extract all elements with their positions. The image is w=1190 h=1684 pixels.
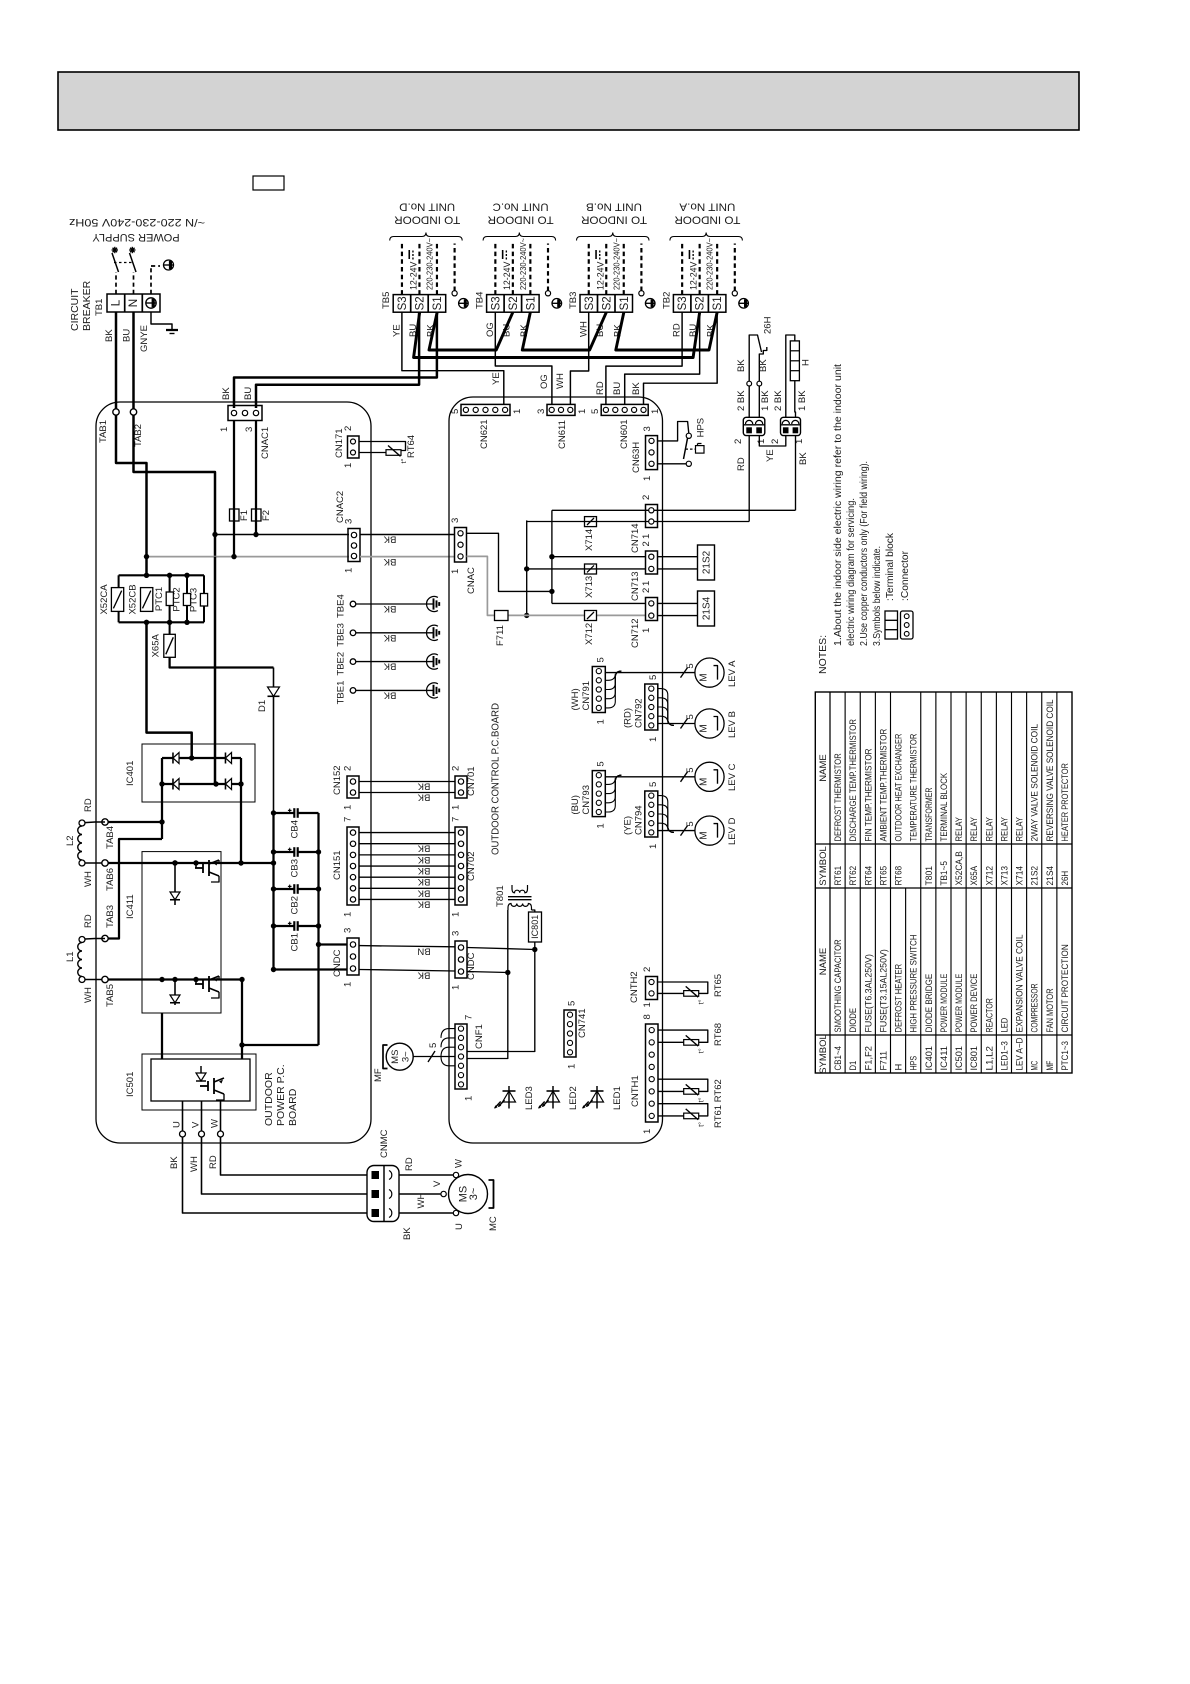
svg-text:TB3: TB3 bbox=[568, 292, 579, 309]
svg-text:RD: RD bbox=[83, 798, 94, 812]
svg-text:S2: S2 bbox=[414, 296, 426, 310]
svg-text:RELAY: RELAY bbox=[969, 817, 979, 842]
svg-text:RD: RD bbox=[736, 457, 747, 471]
dashed field wires TB3 bbox=[588, 244, 590, 295]
LED3 bbox=[508, 1086, 510, 1109]
svg-text:TERMINAL BLOCK: TERMINAL BLOCK bbox=[939, 772, 949, 841]
svg-text:SMOOTHING CAPACITOR: SMOOTHING CAPACITOR bbox=[833, 939, 843, 1032]
svg-text:1: 1 bbox=[219, 427, 230, 432]
svg-text:L1,L2: L1,L2 bbox=[984, 1046, 994, 1071]
svg-text:TRANSFORMER: TRANSFORMER bbox=[924, 787, 934, 841]
bus wire lower bbox=[414, 312, 700, 357]
svg-text:TAB5: TAB5 bbox=[105, 984, 116, 1007]
svg-text:RD: RD bbox=[595, 381, 606, 395]
svg-text:5: 5 bbox=[685, 663, 696, 668]
wire gray CNAC2-1 bbox=[147, 556, 350, 558]
svg-text:1: 1 bbox=[451, 805, 462, 810]
svg-text:3: 3 bbox=[451, 931, 462, 936]
svg-text:WH: WH bbox=[83, 871, 94, 887]
svg-text:TB1~5: TB1~5 bbox=[939, 861, 949, 886]
svg-text:S2: S2 bbox=[601, 296, 613, 310]
protector PTC2 bbox=[186, 575, 188, 593]
expansion valve motor LEV C bbox=[695, 762, 724, 791]
svg-text:1: 1 bbox=[642, 1002, 653, 1007]
svg-text:~/N 220-230-240V 50Hz: ~/N 220-230-240V 50Hz bbox=[69, 216, 205, 228]
earth pin TB4 bbox=[545, 291, 550, 296]
svg-text:220-230-240V~: 220-230-240V~ bbox=[425, 238, 434, 290]
svg-text:LED3: LED3 bbox=[524, 1086, 535, 1110]
thermistor RT62 bbox=[658, 1079, 708, 1091]
connector CN713 bbox=[646, 551, 658, 574]
svg-text:BK: BK bbox=[104, 329, 115, 342]
board-to-board wires CNAC2 to CNAC bbox=[360, 534, 454, 536]
svg-text:X712: X712 bbox=[584, 623, 595, 645]
svg-text:CN63H: CN63H bbox=[631, 442, 642, 473]
svg-text:M: M bbox=[699, 831, 710, 839]
svg-text:3: 3 bbox=[343, 928, 354, 933]
svg-text:TO INDOOR: TO INDOOR bbox=[394, 214, 460, 226]
connector CN712 bbox=[646, 598, 658, 621]
svg-text:F1,F2: F1,F2 bbox=[863, 1046, 873, 1071]
svg-text:UNIT No.D: UNIT No.D bbox=[399, 201, 455, 213]
expansion valve motor LEV A bbox=[695, 658, 724, 687]
svg-text:IC401: IC401 bbox=[924, 1046, 934, 1071]
svg-text:1: 1 bbox=[577, 409, 588, 414]
wire TAB2 down bbox=[134, 415, 216, 557]
outdoor control P.C. board bbox=[449, 397, 663, 1143]
svg-text:12-24V: 12-24V bbox=[689, 262, 699, 290]
svg-text:N: N bbox=[126, 299, 140, 308]
connector CN714 bbox=[646, 505, 658, 528]
svg-text:1: 1 bbox=[450, 569, 461, 574]
svg-text:LEV D: LEV D bbox=[727, 817, 738, 845]
connector CN792 bbox=[645, 684, 658, 730]
svg-text:CN794: CN794 bbox=[633, 805, 644, 835]
outdoor power P.C. board bbox=[96, 402, 371, 1143]
svg-text:LEV A~D: LEV A~D bbox=[1015, 1037, 1025, 1070]
svg-text:t°: t° bbox=[697, 999, 706, 1004]
wire CNAC1-3 through F2 to CNAC2 bbox=[255, 421, 257, 535]
svg-text:TBE1: TBE1 bbox=[336, 681, 347, 705]
svg-text:YE: YE bbox=[391, 324, 402, 337]
svg-text:RT61: RT61 bbox=[833, 866, 843, 886]
svg-text:5: 5 bbox=[648, 782, 659, 787]
svg-text:12-24V: 12-24V bbox=[408, 262, 418, 290]
power module IC411 bbox=[142, 852, 221, 1013]
svg-text:BK: BK bbox=[417, 854, 430, 865]
svg-text:MC: MC bbox=[1030, 1061, 1040, 1071]
svg-text:S1: S1 bbox=[525, 296, 537, 310]
breaker dashed wires bbox=[115, 272, 117, 294]
svg-text:CNMC: CNMC bbox=[379, 1129, 390, 1158]
svg-text:CN152: CN152 bbox=[332, 765, 343, 795]
legend table bbox=[815, 692, 1072, 1073]
wire YE link between plugs bbox=[759, 436, 786, 446]
svg-text:CNTH2: CNTH2 bbox=[629, 971, 640, 1003]
bridge top row bbox=[162, 757, 241, 759]
svg-text:BK: BK bbox=[221, 387, 232, 400]
diode upper in IC411 bbox=[174, 863, 176, 905]
svg-text:BK: BK bbox=[417, 898, 430, 909]
svg-text:TAB1: TAB1 bbox=[98, 420, 109, 443]
connector CN171 bbox=[348, 436, 360, 458]
svg-text:TB5: TB5 bbox=[381, 292, 392, 309]
svg-text:TO INDOOR: TO INDOOR bbox=[674, 214, 740, 226]
svg-text:5: 5 bbox=[685, 768, 696, 773]
connector CN741 bbox=[564, 1010, 576, 1057]
svg-text:W: W bbox=[210, 1119, 221, 1128]
svg-text:TBE2: TBE2 bbox=[336, 652, 347, 676]
svg-text:TO INDOOR: TO INDOOR bbox=[581, 214, 647, 226]
svg-text:RT68: RT68 bbox=[894, 866, 904, 886]
svg-text:220-230-240V~: 220-230-240V~ bbox=[519, 238, 528, 290]
svg-text:X52CA: X52CA bbox=[99, 584, 110, 615]
power device IC501 bbox=[142, 1054, 256, 1110]
wire TAB2 feed to bridge bbox=[214, 557, 216, 784]
svg-text:7: 7 bbox=[343, 817, 354, 822]
connector CNAC2 bbox=[348, 529, 360, 562]
diode lower in IC411 bbox=[174, 980, 176, 1006]
svg-text:OUTDOOR HEAT EXCHANGER: OUTDOOR HEAT EXCHANGER bbox=[894, 733, 904, 841]
connector CN793 bbox=[592, 771, 605, 817]
svg-text:POWER MODULE: POWER MODULE bbox=[954, 974, 964, 1033]
small blank box bbox=[253, 176, 284, 190]
IGBT upper bbox=[195, 867, 203, 869]
connector CN791 bbox=[592, 667, 605, 713]
wire CNAC1-1 through F1 to gray node bbox=[233, 421, 235, 557]
svg-text:2: 2 bbox=[770, 439, 781, 444]
svg-text:BOARD: BOARD bbox=[287, 1088, 299, 1126]
svg-text:5: 5 bbox=[648, 675, 659, 680]
smoothing capacitor CB4 bbox=[274, 812, 295, 814]
wire CB minus rail to CNDC bbox=[274, 968, 348, 970]
svg-text:RT64: RT64 bbox=[406, 435, 417, 458]
thermistor RT68 bbox=[658, 1030, 708, 1042]
svg-text:M: M bbox=[699, 673, 710, 681]
LED1 bbox=[596, 1086, 598, 1109]
svg-text:SYMBOL: SYMBOL bbox=[818, 1034, 829, 1074]
svg-text:OG: OG bbox=[539, 374, 550, 389]
svg-text:T801: T801 bbox=[924, 866, 934, 886]
svg-text:1: 1 bbox=[512, 409, 523, 414]
svg-text:F711: F711 bbox=[878, 1051, 888, 1071]
svg-text:BK: BK bbox=[383, 603, 396, 614]
svg-text:1: 1 bbox=[451, 912, 462, 917]
svg-text:U: U bbox=[172, 1121, 183, 1128]
relay X65A bbox=[169, 622, 171, 634]
svg-text:electric wiring diagram for se: electric wiring diagram for servicing. bbox=[846, 498, 857, 646]
svg-text:OUTDOOR: OUTDOOR bbox=[263, 1072, 275, 1126]
terminal TAB6 bbox=[102, 860, 108, 866]
svg-text:2: 2 bbox=[642, 967, 653, 972]
svg-text:5: 5 bbox=[590, 409, 601, 414]
svg-text:LED: LED bbox=[999, 1018, 1009, 1033]
bridge output right down bbox=[240, 784, 242, 863]
solenoid coil 21S2 bbox=[658, 556, 698, 558]
svg-text:RD: RD bbox=[83, 914, 94, 928]
svg-text:TB4: TB4 bbox=[475, 292, 486, 309]
svg-text:CNDC: CNDC bbox=[466, 952, 477, 980]
svg-text:RELAY: RELAY bbox=[954, 817, 964, 842]
connector CN701 bbox=[455, 776, 467, 798]
svg-text:CB3: CB3 bbox=[290, 859, 301, 877]
wires rails into IC501 bbox=[242, 1045, 319, 1059]
bridge side wires bbox=[161, 758, 163, 784]
wires CN152 to CN701 bbox=[359, 781, 455, 783]
svg-text:1: 1 bbox=[641, 581, 652, 586]
earth pin TB5 bbox=[452, 291, 457, 296]
svg-text:2: 2 bbox=[733, 439, 744, 444]
svg-text:TAB6: TAB6 bbox=[105, 868, 116, 891]
svg-text:L1: L1 bbox=[65, 951, 76, 962]
svg-text:2: 2 bbox=[451, 766, 462, 771]
svg-text:T801: T801 bbox=[495, 885, 506, 907]
svg-text:SYMBOL: SYMBOL bbox=[818, 846, 829, 886]
svg-text:WH: WH bbox=[416, 1193, 427, 1209]
svg-text:3~: 3~ bbox=[401, 1051, 412, 1062]
node junctions on BK wire bbox=[215, 534, 349, 536]
svg-text:S1: S1 bbox=[432, 296, 444, 310]
connector CN151 bbox=[347, 827, 359, 905]
svg-text:1: 1 bbox=[642, 1129, 653, 1134]
svg-text:1: 1 bbox=[343, 463, 354, 468]
svg-text:1: 1 bbox=[595, 823, 606, 828]
svg-text:UNIT No.C: UNIT No.C bbox=[493, 201, 549, 213]
smoothing capacitor rails bbox=[272, 813, 274, 970]
bridge output left to TAB4 node bbox=[161, 784, 163, 839]
svg-text:IC501: IC501 bbox=[954, 1046, 964, 1071]
svg-text:D1: D1 bbox=[848, 1061, 858, 1071]
svg-text:CIRCUIT: CIRCUIT bbox=[69, 288, 81, 331]
svg-text:CN712: CN712 bbox=[630, 618, 641, 648]
svg-text:REACTOR: REACTOR bbox=[984, 998, 994, 1033]
svg-text:220-230-240V~: 220-230-240V~ bbox=[706, 238, 715, 290]
svg-text:L2: L2 bbox=[65, 835, 76, 846]
svg-text:L: L bbox=[109, 299, 123, 306]
breaker poles bbox=[112, 253, 119, 272]
svg-text:1 BK: 1 BK bbox=[797, 390, 808, 411]
svg-text:GNYE: GNYE bbox=[139, 325, 150, 352]
svg-text:PTC1: PTC1 bbox=[154, 587, 165, 611]
svg-text:CN713: CN713 bbox=[630, 571, 641, 601]
connector CNMC bbox=[367, 1166, 399, 1222]
svg-text:BK: BK bbox=[169, 1156, 180, 1169]
IGBT lower bbox=[195, 983, 203, 985]
high pressure switch HPS bbox=[686, 433, 691, 438]
terminal TAB3 and reactor L1 bbox=[102, 935, 108, 941]
wire CN793 to LEV C bbox=[605, 776, 695, 778]
svg-text:F711: F711 bbox=[495, 625, 506, 646]
svg-text:S3: S3 bbox=[677, 296, 689, 310]
svg-text:1 BK: 1 BK bbox=[760, 390, 771, 411]
svg-text:t°: t° bbox=[697, 1097, 706, 1102]
wire L to TAB1 bbox=[115, 312, 117, 409]
svg-text:CN621: CN621 bbox=[479, 419, 490, 449]
connector CNAC1 bbox=[228, 406, 262, 421]
svg-text:2: 2 bbox=[641, 495, 652, 500]
svg-text:BK: BK bbox=[631, 382, 642, 395]
svg-text:X65A: X65A bbox=[151, 634, 162, 658]
svg-text:26H: 26H bbox=[1060, 871, 1070, 886]
svg-text:CN714: CN714 bbox=[630, 523, 641, 553]
svg-text:RT64: RT64 bbox=[863, 866, 873, 886]
solenoid coil 21S4 bbox=[658, 602, 698, 604]
svg-text:DIODE: DIODE bbox=[848, 1008, 858, 1033]
svg-text:CN702: CN702 bbox=[466, 851, 477, 881]
svg-text:S2: S2 bbox=[508, 296, 520, 310]
svg-text:S3: S3 bbox=[397, 296, 409, 310]
svg-text:BU: BU bbox=[612, 382, 623, 395]
svg-text:CB4: CB4 bbox=[290, 820, 301, 838]
svg-text:WH: WH bbox=[83, 987, 94, 1003]
svg-text:YE: YE bbox=[765, 449, 776, 462]
wire YE TB5-S3 to CN621 bbox=[402, 312, 504, 404]
svg-text:X65A: X65A bbox=[969, 865, 979, 885]
svg-text:IC401: IC401 bbox=[125, 761, 136, 786]
wire BU TB2-S2 to CN601 bbox=[625, 312, 700, 404]
relay X714 bbox=[585, 517, 597, 527]
svg-text:CIRCUIT PROTECTION: CIRCUIT PROTECTION bbox=[1060, 944, 1070, 1032]
connector CN702 bbox=[455, 827, 467, 905]
svg-text:t°: t° bbox=[399, 458, 408, 463]
svg-text:2: 2 bbox=[641, 588, 652, 593]
svg-text::Connector: :Connector bbox=[900, 550, 911, 601]
brace TB3 bbox=[577, 233, 650, 241]
svg-text:LEV B: LEV B bbox=[727, 711, 738, 738]
relay X713 bbox=[585, 564, 597, 574]
wires CN151 to CN702 bbox=[359, 832, 455, 834]
svg-text:3: 3 bbox=[244, 427, 255, 432]
svg-text:X712: X712 bbox=[984, 866, 994, 886]
relay X712 bbox=[585, 611, 597, 621]
svg-text:1: 1 bbox=[595, 719, 606, 724]
svg-text:CN793: CN793 bbox=[581, 785, 592, 815]
wires CN63H to HPS bbox=[658, 422, 689, 441]
wire CNDC1 to T801 left leg bbox=[467, 972, 508, 973]
svg-text:NOTES:: NOTES: bbox=[817, 635, 829, 674]
svg-text:8: 8 bbox=[642, 1014, 653, 1019]
connector CN611 bbox=[547, 404, 575, 415]
svg-text:BU: BU bbox=[122, 329, 133, 342]
svg-text:D1: D1 bbox=[257, 700, 268, 712]
svg-text:(RD): (RD) bbox=[622, 708, 633, 728]
svg-text:BK: BK bbox=[383, 534, 396, 545]
svg-text:BK: BK bbox=[383, 556, 396, 567]
terminal TAB1 bbox=[113, 409, 119, 415]
terminal TAB4 and reactor L2 bbox=[102, 819, 108, 825]
svg-text:V: V bbox=[432, 1180, 443, 1187]
svg-text:BK: BK bbox=[417, 792, 430, 803]
svg-text:1.About the indoor side electr: 1.About the indoor side electric wiring … bbox=[833, 364, 844, 646]
svg-text:YE: YE bbox=[491, 372, 502, 385]
thermistor RT65 bbox=[658, 982, 708, 993]
svg-text:RT68: RT68 bbox=[713, 1023, 724, 1046]
svg-text:t°: t° bbox=[697, 1122, 706, 1127]
svg-text:LED1~3: LED1~3 bbox=[999, 1041, 1009, 1070]
terminal TAB5 bbox=[102, 976, 108, 982]
dashed field wires TB4 bbox=[494, 244, 496, 295]
svg-text:WH: WH bbox=[578, 321, 589, 337]
thermistor RT61 bbox=[658, 1104, 708, 1116]
svg-text:RELAY: RELAY bbox=[999, 817, 1009, 842]
svg-text:TBE3: TBE3 bbox=[336, 623, 347, 647]
svg-text:MF: MF bbox=[1045, 1060, 1055, 1070]
svg-text:BK: BK bbox=[417, 843, 430, 854]
svg-text:M: M bbox=[699, 724, 710, 732]
table row dividers bbox=[844, 692, 846, 1073]
svg-text:RT61 RT62: RT61 RT62 bbox=[713, 1079, 724, 1128]
svg-text:5: 5 bbox=[685, 821, 696, 826]
svg-text:S2: S2 bbox=[695, 296, 707, 310]
svg-text:1: 1 bbox=[343, 912, 354, 917]
expansion valve motor LEV D bbox=[695, 816, 724, 845]
svg-text:3: 3 bbox=[450, 518, 461, 523]
wire to CN714 pin2 and BK plug bbox=[552, 509, 796, 511]
svg-text:3~: 3~ bbox=[468, 1188, 480, 1201]
svg-text:NAME: NAME bbox=[818, 754, 829, 781]
connector CN621 bbox=[461, 404, 510, 415]
svg-text:CN171: CN171 bbox=[334, 428, 345, 458]
svg-text:H: H bbox=[894, 1064, 904, 1071]
wire CN713 pin2 bbox=[552, 556, 646, 558]
connector CNDC control board bbox=[455, 941, 467, 978]
svg-text:5: 5 bbox=[595, 761, 606, 766]
svg-text:TAB4: TAB4 bbox=[105, 826, 116, 849]
svg-text:5: 5 bbox=[685, 714, 696, 719]
svg-text:BK: BK bbox=[417, 876, 430, 887]
svg-text:(WH): (WH) bbox=[570, 688, 581, 710]
relay X52CB bbox=[141, 588, 153, 612]
svg-text:RELAY: RELAY bbox=[984, 817, 994, 842]
connector symbol bbox=[901, 611, 914, 639]
svg-text:WH: WH bbox=[555, 373, 566, 389]
svg-text:2WAY VALVE SOLENOID COIL: 2WAY VALVE SOLENOID COIL bbox=[1030, 724, 1040, 842]
svg-text:BK: BK bbox=[417, 865, 430, 876]
svg-text:MS: MS bbox=[390, 1050, 401, 1064]
plug connector pair left bbox=[743, 417, 765, 435]
svg-text:MC: MC bbox=[488, 1216, 499, 1231]
wire BK TB2-S1 to CN601 bbox=[644, 312, 718, 404]
wires CNDC to CNDC bbox=[359, 946, 455, 947]
svg-text:TBE4: TBE4 bbox=[336, 594, 347, 618]
svg-text:TEMPERATURE THERMISTOR: TEMPERATURE THERMISTOR bbox=[909, 733, 919, 841]
svg-text:1: 1 bbox=[641, 628, 652, 633]
svg-text:TB2: TB2 bbox=[661, 292, 672, 309]
svg-text:OUTDOOR CONTROL P.C.BOARD: OUTDOOR CONTROL P.C.BOARD bbox=[490, 703, 502, 855]
svg-text:X52CA,B: X52CA,B bbox=[954, 851, 964, 885]
LED2 bbox=[552, 1086, 554, 1109]
connector CNAC bbox=[455, 528, 467, 563]
svg-text:1: 1 bbox=[756, 439, 767, 444]
svg-text:LED1: LED1 bbox=[612, 1086, 623, 1110]
svg-text:CNAC1: CNAC1 bbox=[260, 427, 271, 459]
svg-text:1: 1 bbox=[451, 985, 462, 990]
smoothing capacitor CB3 bbox=[274, 851, 295, 853]
svg-text:1: 1 bbox=[464, 1096, 475, 1101]
connector CN63H bbox=[646, 436, 658, 470]
svg-text:CB2: CB2 bbox=[290, 896, 301, 914]
svg-text:5: 5 bbox=[595, 657, 606, 662]
svg-text:FAN MOTOR: FAN MOTOR bbox=[1045, 988, 1055, 1032]
protector PTC3 bbox=[203, 575, 205, 593]
wire through X714 to CN714 pin1 and RD plug bbox=[527, 521, 750, 523]
svg-text:RT65: RT65 bbox=[713, 974, 724, 997]
svg-text:F2: F2 bbox=[261, 510, 272, 521]
wire gray CNAC-1 through F711 bbox=[467, 556, 646, 615]
svg-text:AMBIENT TEMP.THERMISTOR: AMBIENT TEMP.THERMISTOR bbox=[878, 729, 888, 842]
heater protector 26H circuit bbox=[749, 335, 761, 417]
svg-text:IC501: IC501 bbox=[125, 1072, 136, 1097]
